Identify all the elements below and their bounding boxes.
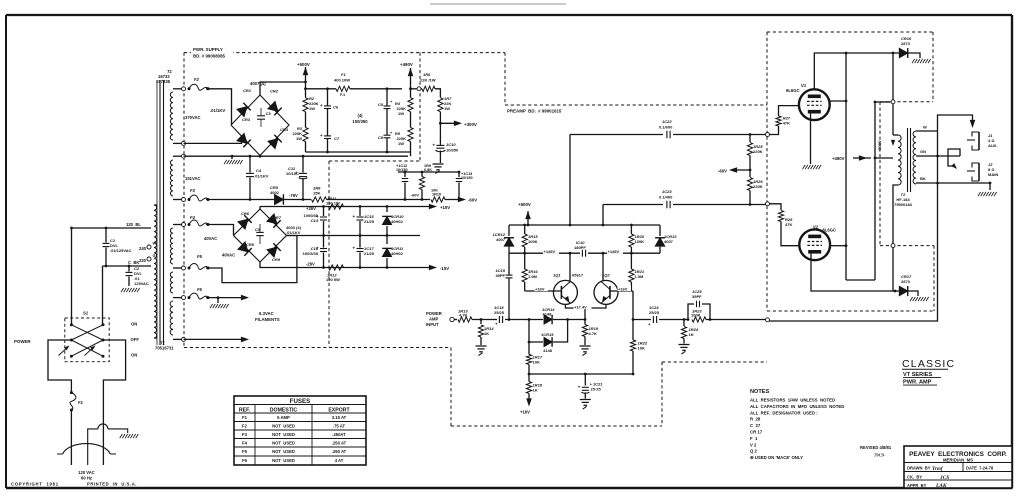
svg-text:10K: 10K [533,360,540,365]
svg-text:⊕ USED ON 'MACE' ONLY: ⊕ USED ON 'MACE' ONLY [750,455,803,460]
svg-text:BK: BK [920,176,926,181]
svg-text:1.0M: 1.0M [635,274,645,279]
svg-text:ON: ON [131,353,137,358]
svg-text:15K: 15K [313,191,320,196]
svg-text:1.0M: 1.0M [528,274,538,279]
svg-text:PRINTED IN U.S.A.: PRINTED IN U.S.A. [87,482,137,487]
svg-text:MAIN: MAIN [988,172,998,177]
svg-text:220K: 220K [753,184,763,189]
svg-text:4.7K: 4.7K [459,313,468,318]
svg-text:V1: V1 [801,83,807,88]
svg-text:400 10W: 400 10W [334,78,350,83]
svg-text:2873: 2873 [901,279,911,284]
svg-text:25/25: 25/25 [649,310,660,315]
svg-text:R 28: R 28 [750,417,761,422]
svg-text:40H02: 40H02 [391,251,404,256]
svg-text:151VAC: 151VAC [185,176,201,181]
svg-text:4148: 4148 [543,312,553,317]
svg-text:2873: 2873 [901,41,911,46]
svg-text:F3: F3 [190,188,196,193]
svg-text:+500V: +500V [518,202,531,207]
svg-text:5 AMP: 5 AMP [277,415,290,420]
svg-text:1W: 1W [444,106,450,111]
svg-text:1W: 1W [398,141,404,146]
svg-text:CR2: CR2 [270,89,279,94]
svg-text:+: + [495,322,498,327]
svg-text:EXPORT: EXPORT [328,407,350,413]
svg-text:-15V: -15V [440,266,449,271]
svg-text:F2: F2 [242,423,248,428]
svg-text:10/15C: 10/15C [286,171,299,176]
svg-text:F6: F6 [242,458,248,463]
svg-text:25-25: 25-25 [591,387,602,392]
svg-text:0.1/600: 0.1/600 [659,125,673,130]
svg-text:COPYRIGHT 1981: COPYRIGHT 1981 [11,482,59,487]
svg-text:BD. # 99008085: BD. # 99008085 [193,54,226,59]
svg-text:10/150: 10/150 [461,176,473,180]
svg-text:1K: 1K [533,388,538,393]
svg-text:4 AT: 4 AT [335,458,344,463]
svg-text:1K: 1K [484,331,489,336]
svg-text:4007: 4007 [496,237,506,242]
svg-text:100 5W: 100 5W [326,277,340,282]
svg-text:ALL RESISTORS 1/4W UNLESS: ALL RESISTORS 1/4W UNLESS NOTED [750,398,835,403]
svg-text:40VAC: 40VAC [222,253,235,258]
svg-text:PWR. AMP: PWR. AMP [903,380,932,386]
svg-text:NOT USED: NOT USED [272,423,295,428]
svg-text:39PF: 39PF [495,273,505,278]
svg-text:+: + [353,246,356,251]
svg-text:OFF: OFF [131,337,140,342]
svg-text:C4: C4 [256,168,262,173]
svg-text:+145V: +145V [608,249,620,254]
svg-text:1W: 1W [296,136,302,141]
svg-text:APPR BY: APPR BY [907,483,927,488]
svg-text:4002: 4002 [270,190,280,195]
svg-text:F1: F1 [242,415,248,420]
svg-text:0.1/400: 0.1/400 [659,195,673,200]
svg-text:-60V: -60V [411,193,420,198]
svg-text:+: + [432,142,435,147]
svg-text:.250 AT: .250 AT [332,449,347,454]
svg-text:DOMESTIC: DOMESTIC [270,407,298,413]
svg-text:C5: C5 [255,227,261,232]
svg-text:CR7: CR7 [273,215,282,220]
svg-text:FUSES: FUSES [290,398,311,405]
svg-text:180PF: 180PF [574,245,586,250]
svg-text:79C9-: 79C9- [874,453,886,458]
svg-text:FILAMENTS: FILAMENTS [255,317,280,322]
svg-text:100K: 100K [635,239,645,244]
svg-text:25/25: 25/25 [494,310,505,315]
svg-text:C9: C9 [378,135,384,140]
svg-text:1K: 1K [689,332,694,337]
svg-text:1Q2: 1Q2 [602,273,610,278]
svg-text:JCS: JCS [939,475,949,481]
svg-text:LAK: LAK [935,483,947,489]
svg-text:CR6: CR6 [241,211,250,216]
svg-text:21/25: 21/25 [364,251,375,256]
svg-text:ALL REF. DESIGNATOR USED :: ALL REF. DESIGNATOR USED : [750,410,818,415]
svg-text:1C23: 1C23 [662,189,672,194]
svg-text:VT SERIES: VT SERIES [903,372,932,378]
svg-text:4.7K: 4.7K [589,331,598,336]
svg-text:F3: F3 [242,432,248,437]
svg-text:-60V: -60V [468,198,477,203]
svg-text:PWR. SUPPLY: PWR. SUPPLY [193,47,223,52]
svg-text:+500V: +500V [877,140,882,152]
svg-text:+: + [320,103,323,108]
svg-text:REVISED 4/8/81: REVISED 4/8/81 [860,445,892,450]
svg-text:+: + [578,384,581,389]
svg-text:+15V: +15V [440,205,450,210]
svg-text:79500184: 79500184 [894,202,913,207]
svg-text:F1: F1 [78,400,84,405]
svg-text:100 1W: 100 1W [326,201,340,206]
svg-text:W: W [923,125,927,130]
svg-text:CR3: CR3 [242,117,251,122]
svg-text:60 Hz: 60 Hz [81,476,92,481]
svg-text:NOT USED: NOT USED [272,432,295,437]
svg-text:.75 AT: .75 AT [333,423,346,428]
svg-text:NOT USED: NOT USED [272,458,295,463]
svg-text:100K: 100K [691,313,701,318]
svg-text:C6: C6 [333,105,339,110]
svg-text:F5: F5 [242,449,248,454]
svg-text:POWER: POWER [426,311,442,316]
svg-text:+500V: +500V [297,62,310,67]
svg-text:10/350: 10/350 [446,148,459,153]
svg-text:4007: 4007 [664,239,674,244]
svg-text:10/150: 10/150 [396,168,408,172]
svg-text:+: + [390,130,393,135]
svg-text:+300V: +300V [464,122,477,127]
svg-text:GN: GN [920,149,926,154]
svg-text:220: 220 [139,258,147,263]
svg-text:F4: F4 [242,440,248,445]
svg-text:+490V: +490V [400,62,413,67]
svg-text:C 27: C 27 [750,423,761,428]
svg-text:ALL CAPACITORS IN MFD UNLE: ALL CAPACITORS IN MFD UNLESS NOTED [750,404,844,409]
svg-text:NOTES: NOTES [750,389,770,395]
svg-text:10K: 10K [431,189,438,193]
svg-text:.250AT: .250AT [332,432,346,437]
svg-text:40VAC: 40VAC [204,236,217,241]
svg-text:1CR15: 1CR15 [541,332,554,337]
svg-text:+26V: +26V [306,206,316,211]
svg-text:CR9: CR9 [272,257,281,262]
svg-text:1Q1: 1Q1 [553,273,561,278]
svg-text:INPUT: INPUT [426,322,439,327]
svg-text:47K: 47K [783,121,790,126]
svg-text:W: W [153,241,157,246]
svg-text:DRAWN BY: DRAWN BY [907,465,931,470]
svg-text:22K /1W: 22K /1W [420,78,436,83]
svg-text:100K: 100K [528,239,538,244]
svg-text:6L6GC: 6L6GC [823,228,837,233]
svg-text:100/350: 100/350 [352,119,368,124]
svg-text:(4): (4) [357,113,363,118]
svg-text:C BK: C BK [128,260,139,265]
svg-text:+: + [353,214,356,219]
svg-text:+: + [320,133,323,138]
svg-text:+: + [648,322,651,327]
svg-text:NOT USED: NOT USED [272,449,295,454]
svg-text:AMP: AMP [429,317,439,322]
svg-text:1R10: 1R10 [432,193,441,197]
svg-text:1R6: 1R6 [423,72,431,77]
svg-text:REF.: REF. [239,407,251,413]
svg-text:.01/125VAC: .01/125VAC [110,248,132,253]
svg-text:220K: 220K [753,149,763,154]
svg-text:C7: C7 [334,136,340,141]
svg-text:+16V: +16V [520,410,530,415]
svg-text:CLASSIC: CLASSIC [902,358,955,370]
svg-text:F2: F2 [194,77,200,82]
svg-text:G: G [153,253,156,258]
svg-text:+16V: +16V [535,286,545,291]
svg-text:1C10: 1C10 [446,142,456,147]
svg-text:CK. BY: CK. BY [907,474,922,479]
svg-text:.250 AT: .250 AT [332,440,347,445]
svg-text:AUX.: AUX. [988,143,998,148]
svg-text:240: 240 [139,246,147,251]
svg-text:S1: S1 [83,311,89,316]
svg-text:120 VAC: 120 VAC [78,470,95,475]
svg-text:1W: 1W [309,106,315,111]
svg-text:ON: ON [131,322,137,327]
svg-text:V2: V2 [813,225,819,230]
svg-text:6.8K: 6.8K [424,168,432,172]
svg-text:3.15 AT: 3.15 AT [332,415,347,420]
svg-text:C14: C14 [311,218,319,223]
svg-text:F1: F1 [341,72,346,77]
svg-text:MERIDIAN MS: MERIDIAN MS [943,458,973,463]
svg-text:.01/1KV: .01/1KV [210,108,225,113]
svg-text:V 2: V 2 [750,442,757,447]
svg-text:F.1: F.1 [340,93,345,97]
svg-text:6.3VAC: 6.3VAC [259,311,274,316]
svg-text:+16V: +16V [618,286,628,291]
svg-text:47K: 47K [785,222,792,227]
svg-text:CR4: CR4 [280,127,289,132]
svg-text:C3: C3 [266,111,272,116]
svg-text:Q 2: Q 2 [750,449,758,454]
svg-text:125VAC: 125VAC [134,281,149,286]
svg-text:40H02: 40H02 [391,219,404,224]
svg-text:C8: C8 [378,102,384,107]
svg-text:-76V: -76V [289,193,298,198]
svg-text:100G/35: 100G/35 [303,251,319,256]
svg-text:DATE 7-24-78: DATE 7-24-78 [966,465,994,470]
svg-text:21/25: 21/25 [364,219,375,224]
svg-text:F 1: F 1 [750,436,758,441]
svg-text:-60V: -60V [718,169,727,174]
svg-text:POWER: POWER [14,339,31,344]
svg-text:F5: F5 [197,254,203,259]
svg-text:+17.4V: +17.4V [574,304,587,309]
svg-text:CR1: CR1 [243,88,252,93]
svg-text:167338: 167338 [156,79,171,84]
svg-text:.01/1KV: .01/1KV [254,174,269,179]
svg-text:CR 17: CR 17 [750,430,763,435]
svg-text:4148: 4148 [543,348,553,353]
svg-text:65617: 65617 [572,273,584,278]
svg-text:PREAMP BD. # 99001615: PREAMP BD. # 99001615 [507,109,562,114]
svg-text:1C22: 1C22 [662,119,672,124]
svg-text:370VAC: 370VAC [185,115,201,120]
svg-text:+490V: +490V [832,156,845,161]
svg-text:70516731: 70516731 [155,346,174,351]
svg-text:CR8: CR8 [246,242,255,247]
svg-text:Yrmf: Yrmf [932,467,944,472]
svg-text:F4: F4 [190,215,196,220]
svg-text:+: + [390,99,393,104]
svg-text:NOT USED: NOT USED [272,440,295,445]
svg-text:39PF: 39PF [692,294,702,299]
svg-text:120 BL: 120 BL [126,222,141,227]
svg-text:6L6GC: 6L6GC [786,88,800,93]
svg-text:-26V: -26V [306,262,315,267]
svg-text:10K: 10K [638,346,645,351]
svg-text:+145V: +145V [544,249,556,254]
svg-text:.01/1KV: .01/1KV [286,230,301,235]
svg-text:F6: F6 [197,287,203,292]
svg-text:1W: 1W [398,111,404,116]
